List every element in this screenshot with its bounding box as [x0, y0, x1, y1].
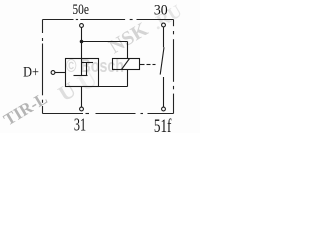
svg-text:D+: D+: [23, 64, 39, 80]
svg-text:30: 30: [154, 3, 168, 19]
terminal 31: [80, 107, 84, 111]
wire junction to coil (horizontal): [82, 41, 128, 43]
svg-text:51f: 51f: [154, 117, 172, 133]
wire junction to box top: [81, 42, 83, 60]
electronic switch symbol inside box: [74, 59, 94, 76]
terminal 30: [162, 23, 166, 27]
wire D+ to box: [55, 72, 66, 74]
svg-text:50e: 50e: [72, 2, 89, 18]
wire down into coil: [127, 42, 129, 59]
wire 50e down to junction: [81, 28, 83, 42]
electronic switching unit box: [66, 59, 99, 87]
svg-text:31: 31: [74, 115, 86, 133]
wire coil bottom down: [127, 70, 129, 87]
wire coil bottom to box corner: [99, 86, 128, 88]
terminal 50e: [80, 24, 84, 28]
terminal 51f: [162, 107, 166, 111]
switch contact blade: [160, 47, 164, 74]
wire box bottom to terminal 31: [81, 87, 83, 108]
device boundary (dash-dot frame): [43, 20, 174, 114]
coil diagonal: [122, 59, 130, 70]
junction node: [80, 40, 84, 44]
wire 30 down to contact: [163, 27, 165, 47]
terminal D+: [51, 71, 55, 75]
relay coil K: [113, 59, 140, 70]
mechanical actuating link (dashed): [140, 64, 156, 66]
wire contact to terminal 51f: [163, 77, 165, 107]
